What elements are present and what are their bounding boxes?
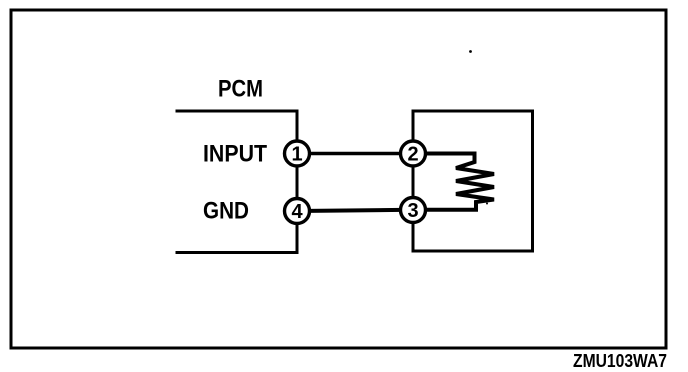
svg-text:4: 4 — [291, 201, 303, 223]
svg-text:PCM: PCM — [218, 76, 263, 103]
svg-text:1: 1 — [291, 144, 302, 166]
svg-text:ZMU103WA7: ZMU103WA7 — [573, 351, 667, 371]
svg-text:GND: GND — [203, 198, 249, 225]
svg-text:INPUT: INPUT — [203, 141, 267, 168]
svg-text:3: 3 — [407, 200, 418, 222]
svg-text:2: 2 — [407, 144, 418, 166]
